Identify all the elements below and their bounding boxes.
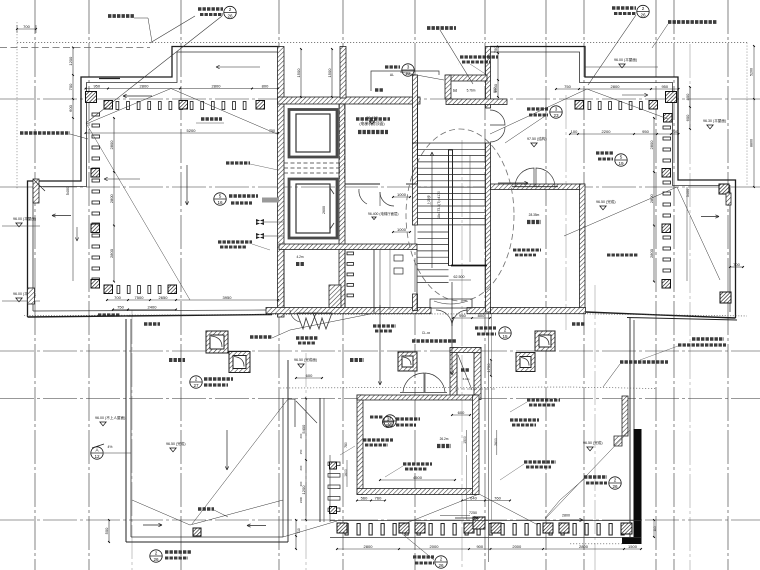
svg-text:96.400 (电梯厅面层): 96.400 (电梯厅面层) xyxy=(368,211,399,216)
svg-text:2: 2 xyxy=(155,551,158,556)
svg-text:6.0m: 6.0m xyxy=(463,377,470,381)
lower wing left edge xyxy=(125,319,127,542)
svg-text:26.2m: 26.2m xyxy=(440,437,449,441)
svg-text:2600: 2600 xyxy=(322,206,326,214)
fan room upper text xyxy=(527,220,541,224)
svg-text:28.35m: 28.35m xyxy=(529,213,540,217)
lower fan room text xyxy=(437,444,451,448)
stair treads xyxy=(418,142,486,144)
small pipes/louver marks in lower corridor x345-412 xyxy=(347,252,354,255)
fan room double door top xyxy=(515,168,534,187)
svg-text:950: 950 xyxy=(642,129,649,134)
svg-text:2600: 2600 xyxy=(494,438,498,446)
svg-text:700: 700 xyxy=(68,83,73,90)
5% slope note centre-left xyxy=(250,335,272,339)
svg-text:23: 23 xyxy=(385,423,391,428)
door into machine room lobby xyxy=(380,192,394,206)
svg-text:760: 760 xyxy=(494,495,501,500)
svg-text:12: 12 xyxy=(94,454,100,459)
ref circle 2/xx near 950 dim xyxy=(499,327,511,339)
left unit top louver row xyxy=(86,92,97,103)
svg-text:2800: 2800 xyxy=(364,544,374,549)
ref circle 5/19 right unit xyxy=(615,154,627,166)
door at lower-left block wall xyxy=(288,398,295,400)
svg-text:950: 950 xyxy=(459,313,466,318)
svg-text:5.76m: 5.76m xyxy=(467,89,476,93)
svg-text:26: 26 xyxy=(438,563,444,568)
svg-text:950: 950 xyxy=(661,84,668,89)
svg-text:5400: 5400 xyxy=(66,187,70,195)
hatched box lower right outline xyxy=(720,292,731,303)
svg-text:950: 950 xyxy=(93,83,100,88)
svg-text:500: 500 xyxy=(104,527,109,534)
svg-text:2800: 2800 xyxy=(562,514,570,518)
ref circle 2/26 right roof xyxy=(609,477,621,489)
分水线 note left unit xyxy=(201,117,222,121)
gutter notes lower fan room xyxy=(363,438,393,441)
svg-text:2: 2 xyxy=(229,7,232,12)
ref circle 2/26 bottom-centre xyxy=(435,556,447,568)
ref circle 2/26 bottom-left xyxy=(150,550,162,562)
right 700 dim small xyxy=(730,266,743,268)
svg-text:5200: 5200 xyxy=(750,68,754,76)
svg-text:7500: 7500 xyxy=(135,295,145,300)
svg-text:5400: 5400 xyxy=(686,189,690,197)
svg-text:7250: 7250 xyxy=(469,511,477,515)
电井 room text xyxy=(296,262,305,266)
svg-text:5200: 5200 xyxy=(187,128,197,133)
stair right wall hatched xyxy=(486,47,491,109)
ref circle 5/16 left of shaft2 xyxy=(214,193,226,205)
svg-text:5: 5 xyxy=(219,194,222,199)
svg-text:3: 3 xyxy=(407,65,410,70)
lower-left roof right edge xyxy=(282,398,284,537)
drain box left of vent shaft xyxy=(398,352,417,371)
dashed long line across lower area xyxy=(280,387,570,388)
svg-text:750: 750 xyxy=(493,46,498,53)
shaft 2 door marks xyxy=(330,188,334,194)
svg-text:5: 5 xyxy=(620,155,623,160)
svg-text:2: 2 xyxy=(642,6,645,11)
svg-text:600: 600 xyxy=(306,373,313,378)
right unit vertical louver column xyxy=(663,126,671,129)
stair landing bold line xyxy=(451,265,487,267)
svg-text:800: 800 xyxy=(493,87,497,93)
svg-text:M: M xyxy=(453,88,457,93)
shaft separator dashed lines xyxy=(284,162,341,164)
ref circle 2/27 lower-left roof xyxy=(190,376,202,388)
larger hatched box at 7250 mark xyxy=(473,517,485,529)
svg-text:2: 2 xyxy=(195,377,198,382)
left unit vert dim x114 2800s xyxy=(113,118,115,282)
elevator shaft 2 xyxy=(289,179,337,238)
svg-text:96.30 (平屋面): 96.30 (平屋面) xyxy=(703,118,726,123)
svg-text:16: 16 xyxy=(217,200,223,205)
elevator machine room top hatched band xyxy=(278,97,421,104)
long leader from circle to wall xyxy=(86,16,222,123)
ref circle top-right 2/26 xyxy=(637,5,649,17)
svg-text:4%: 4% xyxy=(108,445,113,449)
svg-text:700: 700 xyxy=(23,24,30,29)
svg-text:96.00 (平屋面): 96.00 (平屋面) xyxy=(614,57,637,62)
left unit dim row y88 xyxy=(86,88,279,90)
svg-text:8800: 8800 xyxy=(750,139,754,147)
centre vertical dim stack x306 xyxy=(305,399,307,521)
svg-text:3: 3 xyxy=(387,417,390,422)
top-left small dim 700 xyxy=(17,28,36,30)
vent shaft (风井) centre xyxy=(450,348,457,400)
room divider below shafts xyxy=(344,249,346,308)
svg-text:18x173.3(T)=4170: 18x173.3(T)=4170 xyxy=(437,191,441,219)
roof name texts xyxy=(169,358,185,362)
right unit top louver row xyxy=(666,92,677,103)
texts above bottom-centre doors xyxy=(373,324,396,327)
svg-text:1000: 1000 xyxy=(397,192,407,197)
svg-text:1500: 1500 xyxy=(327,68,332,78)
bottom big dim row y549 xyxy=(337,548,641,550)
big shallow V leader right unit xyxy=(490,89,587,134)
600 dims small xyxy=(452,414,470,416)
svg-text:4.2m: 4.2m xyxy=(296,255,303,259)
machine room (south of shafts) xyxy=(417,104,419,184)
right unit dim row y134 xyxy=(570,133,679,135)
svg-text:2000: 2000 xyxy=(430,544,440,549)
upper-right gutter dim texts xyxy=(513,249,541,252)
svg-text:2800: 2800 xyxy=(109,194,114,204)
left unit inner parapet line xyxy=(33,52,279,311)
svg-text:26: 26 xyxy=(227,14,233,19)
vent shaft dims xyxy=(490,360,492,376)
double door top-center right of stair xyxy=(490,110,505,125)
svg-text:600: 600 xyxy=(685,114,690,121)
svg-text:1000: 1000 xyxy=(397,227,407,232)
svg-text:2800: 2800 xyxy=(611,84,621,89)
wall left of top-centre area xyxy=(340,47,346,99)
svg-text:800: 800 xyxy=(685,93,690,100)
上人屋面 notes already. roof access texts near centre top of lower wing xyxy=(296,336,318,339)
svg-text:600: 600 xyxy=(299,465,303,470)
svg-text:150: 150 xyxy=(299,449,303,454)
room band below electrical shaft xyxy=(266,308,431,314)
vert dims x498 (center-right) xyxy=(497,47,499,98)
svg-text:2200: 2200 xyxy=(602,129,612,134)
svg-text:96.50 (完成): 96.50 (完成) xyxy=(166,441,186,446)
top dotted line xyxy=(17,42,747,44)
svg-text:600: 600 xyxy=(458,410,465,415)
svg-text:100: 100 xyxy=(571,129,578,134)
central lower wall with fins (x318-333) xyxy=(319,398,321,522)
svg-text:96.00 (平屋面): 96.00 (平屋面) xyxy=(13,216,36,221)
svg-text:97.50 (结构): 97.50 (结构) xyxy=(527,136,547,141)
svg-text:23: 23 xyxy=(553,113,559,118)
svg-text:600: 600 xyxy=(299,433,303,438)
elevator mid band hatched xyxy=(279,244,417,250)
svg-text:5400: 5400 xyxy=(301,424,306,434)
long diagonal right unit xyxy=(677,187,720,280)
lower-left roof dims xyxy=(108,520,110,542)
svg-text:1500: 1500 xyxy=(628,544,638,549)
svg-text:2650: 2650 xyxy=(159,295,169,300)
svg-text:2400: 2400 xyxy=(299,496,303,503)
wall corner hatched L left xyxy=(33,179,39,203)
vert dims 1500 x301,x332 xyxy=(300,49,302,97)
top center M room hatched band xyxy=(446,75,487,81)
stair left wall hatched xyxy=(413,75,418,143)
right side waterproofing notes xyxy=(692,337,724,340)
svg-text:2800: 2800 xyxy=(109,140,114,150)
left wall lower hatched segment xyxy=(28,288,35,304)
svg-text:700: 700 xyxy=(733,262,740,267)
svg-text:96.50 (完成): 96.50 (完成) xyxy=(583,440,603,445)
dashed shaft-side lines xyxy=(339,104,341,179)
upper building left unit outer wall xyxy=(28,47,280,318)
axis grid vertical lines xyxy=(34,0,36,570)
left unit vert dims x73 xyxy=(72,48,74,119)
svg-text:26: 26 xyxy=(640,13,646,18)
fan room upper: top band + right wall xyxy=(491,184,585,190)
svg-text:3950: 3950 xyxy=(223,295,233,300)
diagonals left unit from corner xyxy=(86,123,190,300)
ref circle top-left 2/26 xyxy=(224,6,236,18)
slope text top-left of lower wing xyxy=(144,322,160,325)
dashed projection arc over stair xyxy=(406,129,514,301)
far-right edge vertical dim xyxy=(753,46,755,187)
svg-text:AL: AL xyxy=(390,73,394,77)
slope % text left bottom roof xyxy=(198,507,214,511)
svg-text:300: 300 xyxy=(299,481,303,486)
upper building right unit outer wall xyxy=(490,47,736,319)
right unit dim row y89 xyxy=(556,88,679,90)
svg-text:2800: 2800 xyxy=(140,83,150,88)
left insulation note xyxy=(20,131,70,135)
svg-text:CL-xx: CL-xx xyxy=(422,331,431,335)
dashed slanting pair near right lower roof top xyxy=(455,388,495,390)
upper building bottom wall left part xyxy=(28,315,273,318)
lower fan room walls xyxy=(357,395,363,495)
svg-text:600: 600 xyxy=(68,104,73,111)
stair arrow line xyxy=(431,152,433,268)
svg-text:27: 27 xyxy=(193,383,199,388)
svg-text:2800: 2800 xyxy=(109,248,114,258)
small hatched box bottom-left roof corner xyxy=(193,528,201,536)
svg-text:900: 900 xyxy=(476,544,483,549)
svg-text:上26步: 上26步 xyxy=(426,195,431,205)
secondary grid verticals xyxy=(131,310,133,570)
stair lower treads xyxy=(418,231,449,233)
drain box pair left xyxy=(206,331,228,353)
ridge/valley diagonal lines lower roofs xyxy=(132,500,190,525)
svg-text:1600: 1600 xyxy=(344,469,348,477)
axis flag circle A/12 xyxy=(91,447,103,459)
top right membrane note xyxy=(668,20,717,24)
bottom louver band xyxy=(345,524,348,536)
stair bottom double door exit xyxy=(436,310,452,326)
svg-text:96.50 (完成面): 96.50 (完成面) xyxy=(294,357,317,362)
svg-text:1500: 1500 xyxy=(296,68,301,78)
svg-text:700: 700 xyxy=(114,295,121,300)
ref circle 3/23 right xyxy=(550,106,562,118)
L-shaped hatched wall at black bar xyxy=(622,396,628,436)
svg-text:96.50 (完成): 96.50 (完成) xyxy=(596,199,616,204)
thin box left of M room xyxy=(371,71,439,91)
inner bottom dim rows left y300 xyxy=(107,299,278,301)
left-mid notes near shaft xyxy=(226,161,250,164)
svg-text:110: 110 xyxy=(653,526,657,531)
upper building bottom wall right part xyxy=(586,312,736,318)
svg-text:1200: 1200 xyxy=(68,56,73,66)
ref circle 3/15 bottom block xyxy=(384,415,396,427)
door fan room top-left xyxy=(359,189,367,204)
right unit vert dims x654 xyxy=(653,118,655,282)
svg-text:800: 800 xyxy=(478,313,485,318)
svg-text:2800: 2800 xyxy=(212,83,222,88)
small arrows left unit xyxy=(104,178,140,180)
slope arrow upper area left unit xyxy=(216,66,260,68)
svg-text:26: 26 xyxy=(612,484,618,489)
canopy rect at stair bottom xyxy=(430,299,472,308)
stair center rails xyxy=(448,150,450,266)
svg-text:2: 2 xyxy=(504,328,507,333)
left unit dim row y133 5200 xyxy=(86,132,279,134)
svg-text:96.00 (不上人屋面): 96.00 (不上人屋面) xyxy=(95,415,125,420)
ref circle 3/22 left of M room xyxy=(402,64,414,76)
lower wing bottom edge left roof xyxy=(126,541,288,543)
top center fan label xyxy=(427,26,456,30)
svg-text:750: 750 xyxy=(117,304,124,309)
svg-text:62.500: 62.500 xyxy=(454,275,465,279)
dim 950/800 near top of centre-bottom xyxy=(453,317,490,319)
left unit inner door (bottom of 电井) xyxy=(290,310,300,322)
elevator shaft 1 xyxy=(289,110,337,158)
right unit corner hatched box xyxy=(719,184,729,194)
svg-text:780: 780 xyxy=(344,442,348,448)
svg-text:15: 15 xyxy=(502,334,508,339)
1000 dim near lobby door xyxy=(393,196,410,198)
svg-text:2800: 2800 xyxy=(579,544,589,549)
svg-text:2400: 2400 xyxy=(148,304,158,309)
svg-text:26: 26 xyxy=(153,557,159,562)
svg-text:560: 560 xyxy=(361,495,368,500)
left unit bottom louver row xyxy=(117,286,120,294)
svg-text:19: 19 xyxy=(618,161,624,166)
drain W zigzags below upper wall xyxy=(297,313,316,329)
svg-text:700: 700 xyxy=(671,129,678,134)
svg-text:2800: 2800 xyxy=(649,140,654,150)
left unit vertical louver column xyxy=(92,113,100,116)
gutter note top-right fanroom xyxy=(460,55,498,58)
fan room lower dims xyxy=(380,479,455,481)
top-left machine label xyxy=(108,14,134,18)
svg-text:800: 800 xyxy=(262,83,269,88)
circled 3/23 inside lower fanroom xyxy=(383,417,394,428)
svg-text:750: 750 xyxy=(564,84,571,89)
double door lower block xyxy=(403,373,424,392)
lower wing right edge double line xyxy=(629,318,631,544)
elevator right wall hatched xyxy=(339,104,345,310)
svg-text:2: 2 xyxy=(614,478,617,483)
svg-text:3: 3 xyxy=(555,107,558,112)
black bar right edge xyxy=(634,429,642,543)
svg-text:2: 2 xyxy=(440,557,443,562)
svg-text:4500: 4500 xyxy=(413,475,423,480)
right unit vert dim x690 xyxy=(689,87,691,129)
svg-text:2800: 2800 xyxy=(649,248,654,258)
louver band top/bottom rails xyxy=(330,520,641,522)
slope arrows xyxy=(52,215,71,217)
elevator shaft walls vertical hatched left xyxy=(278,47,285,318)
svg-text:760: 760 xyxy=(375,495,382,500)
svg-text:2000: 2000 xyxy=(512,544,522,549)
drain box pair right xyxy=(535,331,555,351)
big shallow V leader left unit xyxy=(86,89,171,125)
valve symbols left of shaft xyxy=(256,219,264,225)
axis grid horizontal lines xyxy=(0,98,760,100)
right lower roof left-edge extension lines xyxy=(488,313,490,562)
